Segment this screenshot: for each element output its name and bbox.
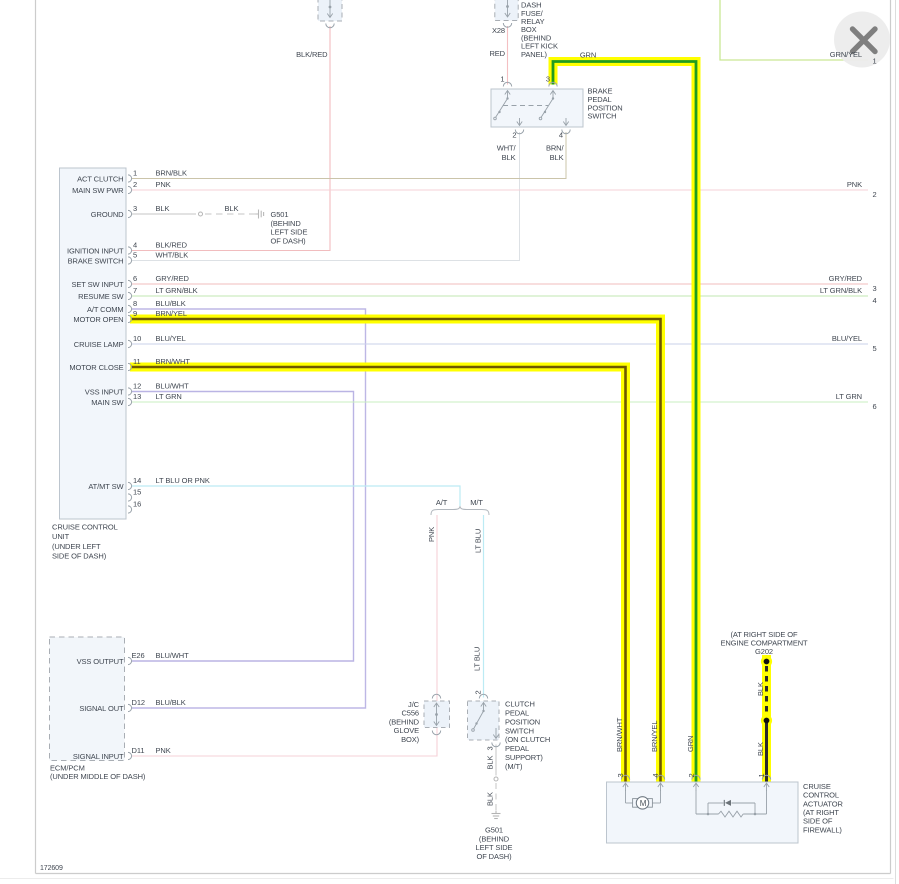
actuator motor circuit wires: [625, 790, 627, 803]
svg-text:3: 3: [873, 284, 877, 293]
highlighted wire BRN/WHT unit pin 11 MOTOR CLOSE to actuator pin 3: [130, 367, 626, 782]
svg-text:BRN/WHT: BRN/WHT: [615, 717, 624, 752]
wire WHT/BLK brake switch pin 2 to unit pin 5: [132, 132, 520, 261]
brake switch pin 4: [565, 118, 567, 125]
ECM/PCM pin connector arc: [128, 752, 132, 759]
svg-text:2: 2: [512, 131, 516, 140]
ground G501 (behind left side of dash) for unit pin 3: [256, 213, 259, 215]
svg-text:BRN/BLK: BRN/BLK: [156, 169, 187, 178]
cruise control unit pin 6 connector arc: [128, 280, 132, 287]
svg-text:3: 3: [486, 746, 495, 750]
motor M symbol: [633, 799, 638, 808]
svg-text:LT GRN/BLK: LT GRN/BLK: [156, 286, 198, 295]
svg-text:5: 5: [873, 344, 877, 353]
ECM/PCM pin connector arc: [128, 704, 132, 711]
svg-text:WHT/: WHT/: [497, 144, 517, 153]
svg-text:G501: G501: [271, 210, 289, 219]
cruise control unit pin 10 connector arc: [128, 340, 132, 347]
connector X28 of dash fuse/relay box: [495, 0, 518, 21]
svg-text:SUPPORT): SUPPORT): [505, 753, 543, 762]
svg-text:PANEL): PANEL): [521, 50, 548, 59]
brake switch right blade: [541, 99, 553, 118]
cruise control unit pin 13 connector arc: [128, 398, 132, 405]
svg-text:RESUME SW: RESUME SW: [78, 292, 124, 301]
cruise control unit pin 15 connector arc: [128, 494, 132, 501]
cruise control unit pin 8 connector arc: [128, 305, 132, 312]
cruise control actuator box: [607, 782, 799, 843]
svg-text:GLOVE: GLOVE: [394, 726, 419, 735]
svg-text:BLK: BLK: [486, 756, 495, 770]
highlighted wire GRN brake switch pin 3 to actuator pin 2 (yellow highlight): [553, 62, 696, 782]
svg-text:SIGNAL INPUT: SIGNAL INPUT: [73, 752, 124, 761]
splice dot G202 top: [764, 659, 770, 665]
brake switch pin 2: [519, 118, 521, 125]
wire PNK (A/T) from split through J/C C556 to ECM D11: [132, 515, 437, 756]
svg-text:11: 11: [133, 357, 141, 366]
svg-text:LT GRN: LT GRN: [156, 392, 182, 401]
svg-text:PNK: PNK: [156, 180, 171, 189]
actuator pin arc and arrow: [762, 775, 770, 779]
svg-text:MAIN SW: MAIN SW: [91, 398, 124, 407]
svg-text:BRN/: BRN/: [546, 144, 565, 153]
svg-text:BRN/YEL: BRN/YEL: [650, 721, 659, 752]
svg-text:8: 8: [133, 299, 137, 308]
svg-text:FIREWALL): FIREWALL): [803, 825, 842, 834]
svg-text:(BEHIND: (BEHIND: [271, 219, 302, 228]
connector (dash fuse/relay box) above BLK/RED: [318, 0, 342, 21]
svg-text:MOTOR OPEN: MOTOR OPEN: [73, 315, 123, 324]
cruise control unit pin 14 connector arc: [128, 482, 132, 489]
svg-text:CRUISE LAMP: CRUISE LAMP: [74, 340, 124, 349]
cruise control unit pin 12 connector arc: [128, 388, 132, 395]
actuator clutch coil circuit wires: [695, 790, 697, 814]
outer page line right: [895, 0, 897, 884]
svg-text:CRUISE: CRUISE: [803, 782, 831, 791]
svg-text:A/T: A/T: [436, 498, 448, 507]
wire RED from X28 connector to brake switch pin 1: [507, 26, 509, 85]
wire BLK clutch switch pin 3 to inline connector and ground G501: [495, 745, 497, 776]
inline connector on BLK ground wire: [199, 212, 203, 216]
svg-text:BLK: BLK: [225, 204, 239, 213]
cruise control unit pin 2 connector arc: [128, 186, 132, 193]
svg-text:PNK: PNK: [427, 527, 436, 542]
svg-text:WHT/BLK: WHT/BLK: [156, 251, 189, 260]
svg-text:SWITCH: SWITCH: [505, 726, 534, 735]
clutch switch pin 3: [495, 728, 497, 738]
brake switch mechanical link (dashed): [503, 105, 548, 107]
svg-text:2: 2: [474, 690, 483, 694]
svg-text:M: M: [640, 799, 647, 808]
svg-text:(BEHIND: (BEHIND: [479, 834, 510, 843]
svg-text:BLK: BLK: [502, 153, 516, 162]
brace split A/T M/T: [431, 506, 489, 515]
svg-text:BLU/YEL: BLU/YEL: [156, 334, 186, 343]
svg-text:3: 3: [616, 773, 625, 777]
cruise control unit pin 11 connector arc: [128, 363, 132, 370]
close button X icon: [853, 29, 876, 52]
svg-text:LEFT SIDE: LEFT SIDE: [271, 228, 308, 237]
svg-text:OF DASH): OF DASH): [476, 852, 512, 861]
svg-text:M/T: M/T: [470, 498, 483, 507]
cruise control unit pin 16 connector arc: [128, 506, 132, 513]
svg-text:SIGNAL OUT: SIGNAL OUT: [79, 704, 124, 713]
svg-text:D12: D12: [132, 698, 145, 707]
svg-text:AT/MT SW: AT/MT SW: [88, 482, 124, 491]
wire LT BLU (M/T) from split to clutch switch pin 2: [483, 515, 485, 698]
junction connector J/C C556 box: [424, 701, 450, 728]
svg-text:LT BLU: LT BLU: [474, 529, 483, 553]
brake pedal position switch box: [491, 89, 583, 127]
svg-text:2: 2: [687, 773, 696, 777]
svg-text:4: 4: [133, 241, 137, 250]
svg-text:VSS OUTPUT: VSS OUTPUT: [77, 657, 124, 666]
cruise control unit pin 7 connector arc: [128, 292, 132, 299]
svg-text:X28: X28: [492, 26, 505, 35]
wire PNK unit pin 2 to right edge node 2: [132, 189, 868, 191]
cruise control unit pin 5 connector arc: [128, 257, 132, 264]
wire BLU/YEL unit pin 10 to right edge node 5: [132, 343, 868, 345]
svg-text:(BEHIND: (BEHIND: [389, 717, 420, 726]
svg-text:GROUND: GROUND: [91, 210, 124, 219]
svg-text:BLK/RED: BLK/RED: [296, 50, 328, 59]
svg-text:BLK/RED: BLK/RED: [156, 241, 188, 250]
svg-text:3: 3: [133, 204, 137, 213]
svg-text:G501: G501: [485, 826, 503, 835]
svg-text:BLU/WHT: BLU/WHT: [156, 651, 190, 660]
wire BLU/WHT unit pin 12 down to ECM E26: [132, 392, 354, 662]
cruise control unit pin 4 connector arc: [128, 247, 132, 254]
svg-text:CLUTCH: CLUTCH: [505, 700, 535, 709]
svg-text:3: 3: [546, 75, 550, 84]
close button circle: [834, 12, 890, 68]
clutch pedal position switch box (dashed): [468, 701, 500, 740]
svg-text:5: 5: [133, 251, 137, 260]
wire LT BLU OR PNK unit pin 14 to A/T-M/T split: [132, 486, 460, 506]
svg-text:BLK: BLK: [756, 742, 765, 756]
svg-text:RED: RED: [489, 49, 505, 58]
svg-text:2: 2: [873, 190, 877, 199]
svg-text:6: 6: [133, 274, 137, 283]
svg-text:BLU/WHT: BLU/WHT: [156, 382, 190, 391]
svg-text:LT GRN/BLK: LT GRN/BLK: [820, 286, 862, 295]
svg-text:(UNDER MIDDLE OF DASH): (UNDER MIDDLE OF DASH): [50, 772, 146, 781]
svg-text:BLK: BLK: [156, 204, 170, 213]
svg-text:(M/T): (M/T): [505, 762, 523, 771]
svg-text:1: 1: [133, 169, 137, 178]
clutch switch blade: [474, 711, 484, 729]
brake switch pin 1: [503, 82, 511, 86]
svg-text:1: 1: [873, 57, 877, 66]
svg-text:14: 14: [133, 476, 141, 485]
svg-text:BLK: BLK: [486, 792, 495, 806]
ECM/PCM pin connector arc: [128, 657, 132, 664]
actuator pin arc and arrow: [692, 775, 700, 779]
highlighted wire BRN/YEL unit pin 9 MOTOR OPEN to actuator pin 4: [130, 319, 661, 782]
svg-text:9: 9: [133, 309, 137, 318]
svg-text:MAIN SW PWR: MAIN SW PWR: [72, 186, 124, 195]
svg-text:GRN: GRN: [686, 736, 695, 752]
svg-text:PEDAL: PEDAL: [505, 708, 529, 717]
svg-text:E26: E26: [132, 651, 145, 660]
svg-text:6: 6: [873, 402, 877, 411]
svg-text:BLU/YEL: BLU/YEL: [832, 334, 862, 343]
wire BLU/BLK unit pin 8 down to ECM D12: [132, 309, 366, 708]
svg-text:LEFT SIDE: LEFT SIDE: [476, 843, 513, 852]
svg-text:BRN/YEL: BRN/YEL: [156, 309, 187, 318]
svg-text:ACT CLUTCH: ACT CLUTCH: [77, 175, 123, 184]
brake switch pin 3: [549, 82, 557, 86]
wire GRY/RED unit pin 6 to right edge node 3: [132, 283, 868, 285]
svg-text:BOX): BOX): [401, 735, 420, 744]
svg-text:10: 10: [133, 334, 141, 343]
svg-text:A/T COMM: A/T COMM: [87, 305, 124, 314]
svg-text:(UNDER LEFT: (UNDER LEFT: [52, 542, 101, 551]
svg-text:LT GRN: LT GRN: [836, 392, 862, 401]
svg-text:4: 4: [559, 131, 563, 140]
wire GRN/YEL top right to right edge node 1: [720, 0, 868, 60]
actuator pin arc and arrow: [656, 775, 664, 779]
svg-text:OF DASH): OF DASH): [271, 236, 307, 245]
svg-text:UNIT: UNIT: [52, 532, 70, 541]
svg-text:1: 1: [500, 75, 504, 84]
svg-text:BRAKE SWITCH: BRAKE SWITCH: [68, 257, 124, 266]
svg-text:(ON CLUTCH: (ON CLUTCH: [505, 735, 550, 744]
svg-text:1: 1: [757, 773, 766, 777]
svg-text:12: 12: [133, 382, 141, 391]
highlighted wire BLK actuator pin 1 to ground G202: [762, 655, 771, 782]
svg-text:GRN/YEL: GRN/YEL: [830, 50, 862, 59]
svg-text:SIDE OF: SIDE OF: [803, 817, 833, 826]
svg-text:SWITCH: SWITCH: [588, 112, 617, 121]
svg-text:13: 13: [133, 392, 141, 401]
svg-text:ACTUATOR: ACTUATOR: [803, 799, 843, 808]
svg-text:MOTOR CLOSE: MOTOR CLOSE: [69, 363, 123, 372]
splice dot above actuator: [764, 718, 770, 724]
svg-text:PEDAL: PEDAL: [505, 744, 529, 753]
svg-text:GRY/RED: GRY/RED: [156, 274, 190, 283]
clutch switch pin 2: [479, 694, 487, 698]
ground G501 (behind left side of dash) below clutch switch: [495, 811, 497, 814]
svg-text:IGNITION INPUT: IGNITION INPUT: [67, 247, 124, 256]
wire LT GRN/BLK unit pin 7 to right edge node 4: [132, 295, 868, 297]
svg-text:2: 2: [133, 180, 137, 189]
svg-text:4: 4: [873, 296, 877, 305]
diagram frame left border: [35, 0, 37, 874]
cruise control unit pin 3 connector arc: [128, 210, 132, 217]
resistor symbol: [719, 811, 744, 817]
svg-text:POSITION: POSITION: [505, 717, 540, 726]
svg-text:CRUISE CONTROL: CRUISE CONTROL: [52, 523, 118, 532]
outer page line bottom: [0, 878, 894, 880]
svg-text:15: 15: [133, 488, 141, 497]
wire BLK/RED from dash fuse box connector to pin 4: [132, 26, 330, 251]
svg-text:4: 4: [651, 773, 660, 777]
cruise control unit box: [60, 168, 127, 519]
svg-text:GRY/RED: GRY/RED: [829, 274, 863, 283]
svg-text:G202: G202: [755, 647, 773, 656]
svg-text:(AT RIGHT: (AT RIGHT: [803, 808, 839, 817]
inline connector on clutch BLK wire: [494, 777, 498, 781]
cruise control unit pin 1 connector arc: [128, 175, 132, 182]
ECM/PCM box (dashed): [50, 637, 125, 761]
diode symbol: [723, 800, 725, 806]
svg-text:BRN/WHT: BRN/WHT: [156, 357, 191, 366]
svg-text:BLK: BLK: [550, 153, 564, 162]
svg-text:LT BLU: LT BLU: [473, 647, 482, 671]
svg-text:VSS INPUT: VSS INPUT: [85, 388, 124, 397]
svg-text:16: 16: [133, 500, 141, 509]
svg-text:172609: 172609: [40, 865, 63, 872]
svg-text:SET SW INPUT: SET SW INPUT: [72, 280, 125, 289]
wire BLK unit pin 3 to ground G501: [132, 213, 196, 215]
svg-text:7: 7: [133, 286, 137, 295]
wire BRN/BLK brake switch pin 4 to unit pin 1: [132, 132, 566, 179]
svg-text:SIDE OF DASH): SIDE OF DASH): [52, 552, 107, 561]
svg-text:BLU/BLK: BLU/BLK: [156, 299, 186, 308]
wire LT GRN unit pin 13 to right edge node 6: [132, 401, 868, 403]
svg-text:LT BLU OR PNK: LT BLU OR PNK: [156, 476, 210, 485]
svg-text:PNK: PNK: [847, 180, 862, 189]
svg-text:PNK: PNK: [156, 746, 171, 755]
diagram frame bottom border: [36, 873, 891, 875]
actuator pin arc and arrow: [621, 775, 629, 779]
svg-text:GRN: GRN: [580, 51, 596, 60]
cruise control unit pin 9 connector arc: [128, 315, 132, 322]
svg-text:BLK: BLK: [756, 682, 765, 696]
brake switch left blade: [496, 99, 508, 118]
svg-text:CONTROL: CONTROL: [803, 791, 839, 800]
svg-text:D11: D11: [132, 746, 145, 755]
svg-text:BLU/BLK: BLU/BLK: [156, 698, 186, 707]
diagram frame right border: [890, 0, 892, 874]
svg-text:J/C: J/C: [408, 700, 420, 709]
svg-text:C556: C556: [401, 709, 419, 718]
